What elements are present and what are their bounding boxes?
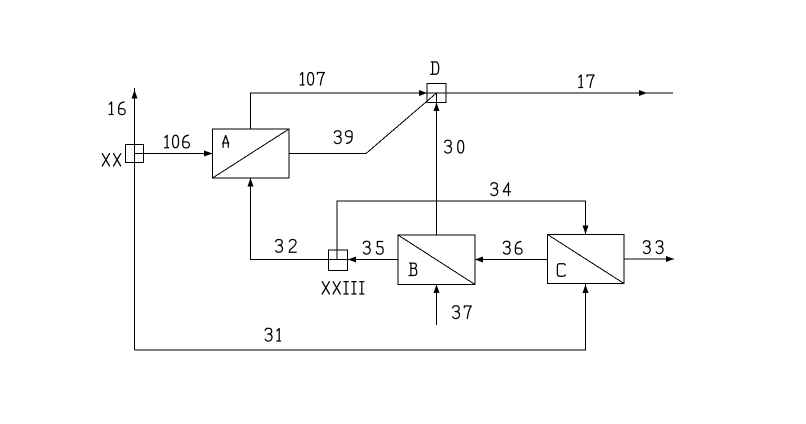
wire 30 [436,93,438,235]
label 106 [165,135,190,148]
arrowhead 36 into B [475,257,483,263]
node D square [427,84,446,103]
node XX square [126,145,144,163]
arrowhead 37 into B bottom [434,285,440,294]
wire 32 [251,179,348,260]
label 107 [300,73,324,86]
label 34 [491,183,511,196]
arrowhead 31 into C bottom [583,285,589,294]
wire 107 [251,93,437,129]
arrowhead 32 into A bottom [248,178,254,187]
box unit A [213,129,290,178]
arrowhead 16 up [132,90,138,99]
label D [431,62,439,74]
wire 34 [337,201,586,260]
arrowhead 106 into A [204,151,213,157]
box unit B [398,235,475,285]
label 33 [643,241,663,254]
label 39 [334,131,352,144]
label 32 [276,240,297,253]
wire 33 [624,258,674,260]
label 31 [265,328,280,341]
label XX [102,154,120,166]
label 17 [579,75,594,88]
label 30 [445,140,464,153]
label A [223,136,229,148]
wire stream 16 vertical line [134,88,136,350]
label 37 [453,306,472,319]
box unit C [548,235,625,284]
arrowhead 17 mid [639,90,647,96]
label 35 [363,241,383,254]
arrowhead 30 into D bottom [434,103,440,112]
wire 39 diagonal [289,93,437,154]
wire 37 [436,285,438,325]
arrowhead 35 into XXIII [348,257,356,263]
label B [409,263,417,275]
node XXIII square [329,250,348,271]
wire 17 [437,92,674,94]
wire stream 31 bottom line [135,284,586,350]
label 36 [503,241,522,254]
label XXIII [322,282,364,294]
wire 36 [475,259,548,261]
arrowhead 107 into D [419,90,427,96]
arrowhead 33 end [666,256,674,262]
wire 106 [135,153,213,155]
wire 35 [348,259,398,261]
label C [557,264,565,277]
arrowhead 34 into C top [583,226,589,235]
label 16 [109,102,125,115]
